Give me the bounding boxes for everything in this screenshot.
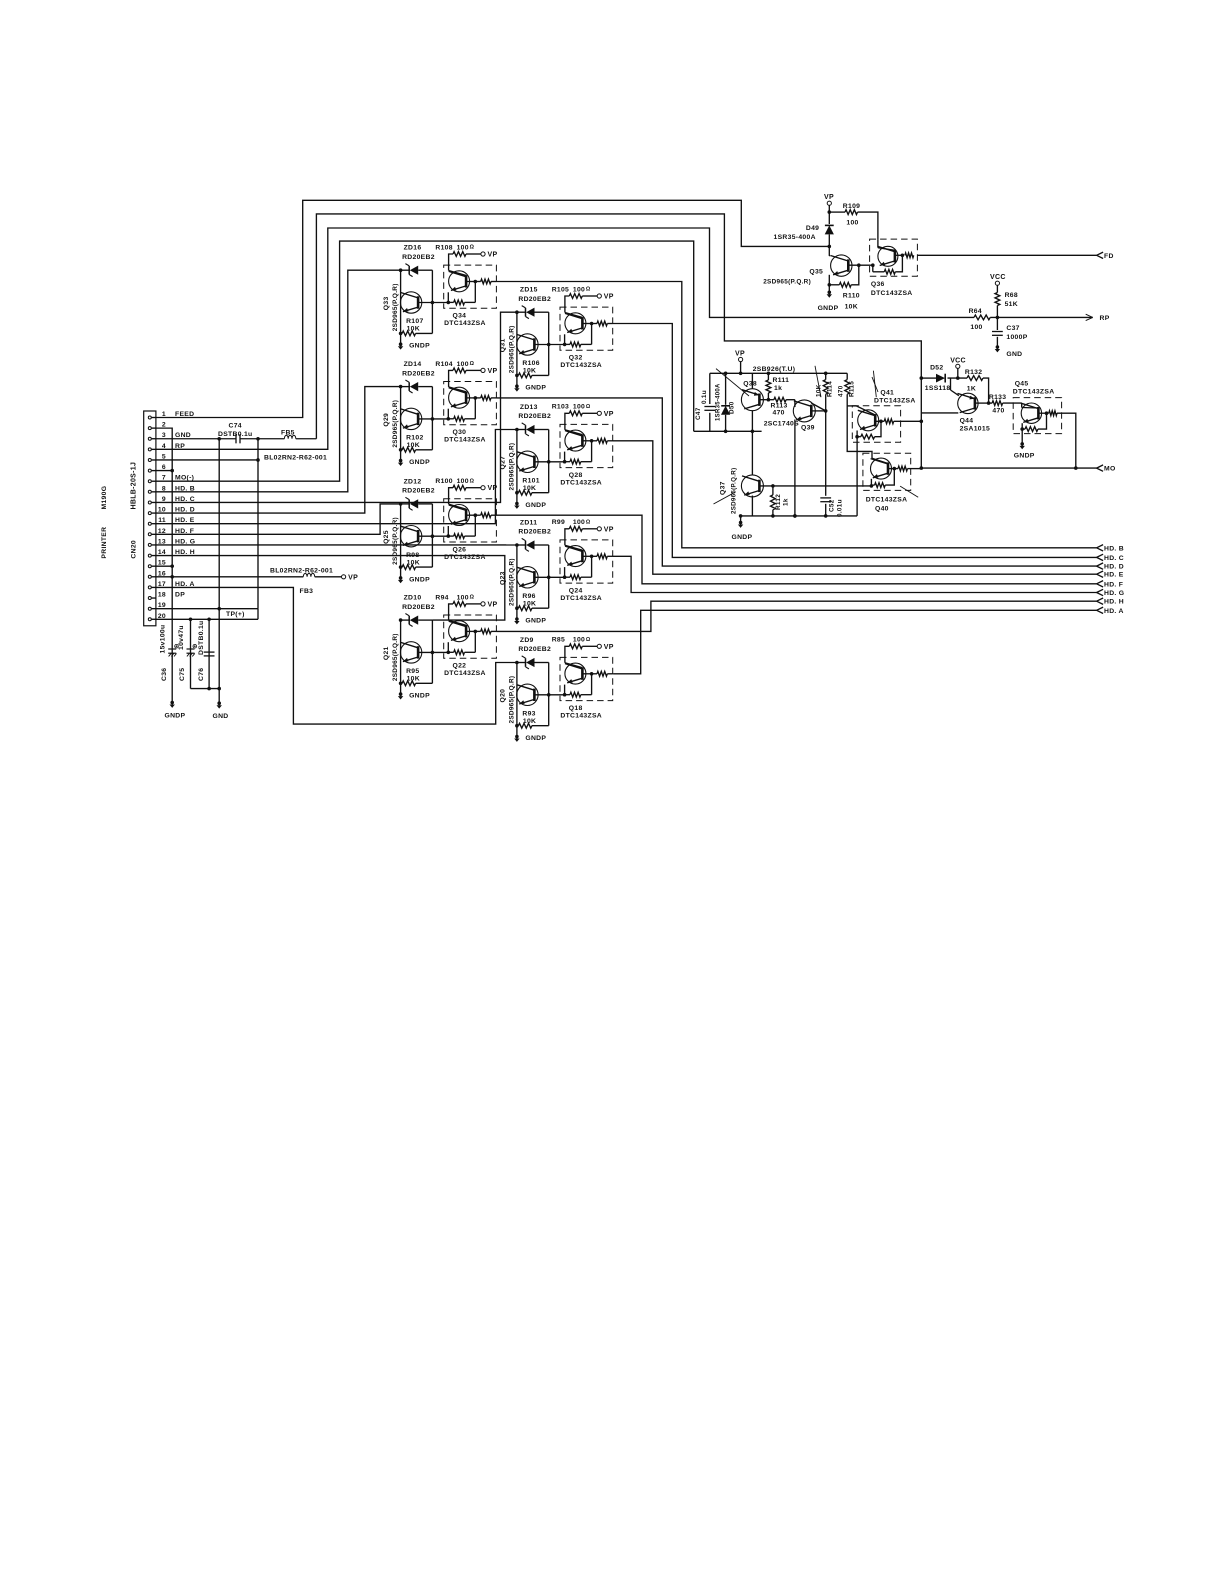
digital transistor Q30 — [444, 382, 497, 425]
svg-text:Ω: Ω — [470, 245, 475, 251]
svg-text:GNDP: GNDP — [525, 502, 546, 509]
svg-text:DTC143ZSA: DTC143ZSA — [560, 480, 602, 487]
svg-text:1000P: 1000P — [1006, 334, 1027, 341]
wire base link Q25 — [418, 535, 448, 537]
svg-text:100: 100 — [573, 286, 585, 293]
resistor R99 — [565, 529, 569, 540]
wire row16 FB3 — [156, 576, 303, 578]
transistor Q23 — [517, 567, 538, 588]
leader Q41 — [872, 377, 878, 392]
svg-text:DTC143ZSA: DTC143ZSA — [560, 595, 602, 602]
svg-text:R113: R113 — [771, 403, 788, 410]
wire Q37 collector rail — [694, 430, 762, 432]
transistor Q31 — [517, 334, 538, 355]
resistor R108 — [449, 254, 453, 265]
svg-text:Ω: Ω — [586, 287, 591, 293]
svg-text:15v100u: 15v100u — [160, 625, 167, 654]
resistor R132 — [967, 376, 983, 381]
svg-text:DSTB0.1u: DSTB0.1u — [218, 431, 253, 438]
transistor Q20 — [517, 684, 538, 705]
ground GNDP (Q45) — [1020, 442, 1024, 446]
svg-text:100: 100 — [457, 361, 469, 368]
wire pin15 stub — [156, 565, 172, 567]
svg-text:DTC143ZSA: DTC143ZSA — [444, 320, 486, 327]
port FD — [1097, 252, 1104, 255]
ground GNDP Q21 — [399, 692, 403, 696]
connector signal labels — [175, 411, 245, 618]
wire collector drop Q33 — [400, 270, 402, 344]
svg-text:R109: R109 — [843, 203, 860, 210]
svg-text:10K: 10K — [523, 368, 536, 375]
digital transistor Q32 — [560, 307, 613, 350]
svg-text:R101: R101 — [522, 478, 539, 485]
ferrite bead FB5 — [284, 435, 295, 439]
capacitor C76 — [204, 651, 215, 653]
svg-text:VP: VP — [488, 368, 498, 375]
svg-text:GNDP: GNDP — [165, 713, 186, 720]
wire base column Q29 — [431, 387, 433, 450]
zener ZD11 — [517, 544, 526, 546]
resistor R94 — [449, 604, 453, 615]
node VP (R100) — [481, 486, 485, 490]
connector CN20 pins 1-20 — [148, 416, 151, 621]
diode D52 — [921, 377, 936, 379]
wire HD.B feed — [156, 270, 401, 492]
svg-text:C36: C36 — [161, 668, 168, 681]
svg-text:DTC143ZSA: DTC143ZSA — [1013, 388, 1055, 395]
svg-text:Q44: Q44 — [960, 418, 974, 425]
leader R115 — [873, 371, 876, 398]
resistor R85 — [565, 646, 569, 657]
svg-text:Q24: Q24 — [569, 588, 583, 595]
wire HD.E feed — [156, 430, 517, 524]
digital transistor Q34 — [444, 265, 497, 308]
svg-text:R114: R114 — [827, 381, 834, 397]
wire GNDP rail (pin2 column) — [156, 428, 172, 702]
svg-text:1k: 1k — [774, 385, 782, 392]
node VP (R104) — [481, 368, 485, 372]
wire GND/FB5 bus net — [316, 214, 921, 468]
resistor R112 — [772, 486, 774, 495]
leader R114 — [815, 366, 821, 397]
svg-text:R112: R112 — [775, 494, 782, 510]
svg-text:470: 470 — [773, 410, 785, 417]
wire RP net right — [990, 316, 1092, 318]
svg-text:R100: R100 — [435, 478, 452, 485]
svg-text:10K: 10K — [407, 559, 420, 566]
svg-text:2SD965(P.Q.R): 2SD965(P.Q.R) — [508, 325, 515, 373]
wire Q41 collector tap — [847, 405, 856, 407]
wire HD.H output net — [496, 601, 1096, 631]
node VP (R108) — [481, 252, 485, 256]
resistor R102 — [401, 449, 403, 451]
svg-text:51K: 51K — [1005, 301, 1018, 308]
svg-text:10K: 10K — [523, 601, 536, 608]
wire HD.C output net — [613, 324, 1097, 558]
svg-text:VP: VP — [604, 644, 614, 651]
wire HD.H feed — [156, 556, 505, 621]
svg-text:RP: RP — [1100, 315, 1110, 322]
svg-text:10K: 10K — [407, 326, 420, 333]
svg-text:GNDP: GNDP — [409, 576, 430, 583]
svg-text:1K: 1K — [967, 385, 976, 392]
svg-text:R104: R104 — [435, 361, 452, 368]
node VP (FB3) — [342, 575, 346, 579]
wire Q44 collector link — [921, 412, 958, 414]
svg-text:2SD965(P.Q.R): 2SD965(P.Q.R) — [508, 676, 515, 724]
svg-text:R102: R102 — [406, 435, 423, 442]
wire base link Q27 — [534, 461, 564, 463]
svg-text:GND: GND — [1006, 351, 1022, 358]
ground GNDP Q31 — [515, 384, 519, 388]
svg-text:100: 100 — [573, 637, 585, 644]
wire base column Q33 — [431, 270, 433, 333]
svg-text:Q25: Q25 — [383, 530, 390, 544]
ferrite bead FB3 — [303, 573, 314, 577]
svg-text:DTC143ZSA: DTC143ZSA — [874, 398, 916, 405]
wire HD.C feed — [156, 312, 517, 502]
svg-text:0.1u: 0.1u — [701, 390, 708, 404]
leader 2SB926 — [716, 369, 749, 396]
svg-text:2SB926(T.U): 2SB926(T.U) — [753, 366, 796, 373]
svg-text:100: 100 — [970, 324, 982, 331]
svg-text:Q33: Q33 — [383, 296, 390, 310]
ground GNDP Q23 — [515, 617, 519, 621]
svg-text:10K: 10K — [845, 303, 858, 310]
svg-text:HD. D: HD. D — [1104, 564, 1124, 571]
digital transistor Q26 — [444, 499, 497, 542]
svg-text:100: 100 — [573, 404, 585, 411]
wire row20 — [156, 618, 258, 620]
zener ZD10 — [401, 619, 410, 621]
svg-text:2SD965(P.Q.R): 2SD965(P.Q.R) — [392, 633, 399, 681]
wire HD.A output net — [613, 610, 1097, 674]
svg-text:2SD965(P.Q.R): 2SD965(P.Q.R) — [392, 283, 399, 331]
wire HD.F output net — [496, 515, 1096, 584]
wire TP(+) column — [218, 439, 220, 703]
port HD.E — [1097, 571, 1104, 574]
svg-text:ZD14: ZD14 — [404, 361, 422, 368]
transistor Q44 — [958, 393, 978, 413]
svg-text:2SD965(P.Q.R): 2SD965(P.Q.R) — [763, 278, 811, 285]
svg-text:HD. C: HD. C — [1104, 555, 1124, 562]
capacitor C37 — [996, 317, 998, 330]
wire HD.D output net — [496, 398, 1096, 566]
wire collector drop Q29 — [400, 387, 402, 461]
ground GNDP Q25 — [399, 576, 403, 580]
resistor R95 — [401, 682, 403, 684]
capacitor C47 — [704, 406, 715, 408]
transistor Q35 — [828, 246, 830, 256]
svg-text:Q32: Q32 — [569, 355, 583, 362]
zener ZD16 — [401, 269, 410, 271]
svg-text:R68: R68 — [1005, 292, 1018, 299]
wire RP net — [156, 228, 974, 449]
svg-text:HD. A: HD. A — [1104, 608, 1124, 615]
svg-text:Q22: Q22 — [453, 663, 467, 670]
svg-text:HD. E: HD. E — [1104, 572, 1124, 579]
svg-text:2SC1740S: 2SC1740S — [764, 421, 799, 428]
wire HD.B output net — [496, 282, 1096, 548]
diode D49 — [825, 225, 834, 234]
port HD.D — [1097, 563, 1104, 566]
node VP (MO) — [739, 357, 743, 361]
resistor R100 — [449, 488, 453, 499]
wire Q35 base — [848, 264, 873, 266]
wire HD.G output net — [613, 556, 1097, 592]
resistor R115 — [845, 380, 850, 395]
wire base link Q31 — [534, 344, 564, 346]
wire Q35 emitter — [828, 275, 830, 293]
svg-text:C52: C52 — [829, 499, 836, 512]
transistor Q25 — [400, 526, 421, 547]
port HD.H — [1097, 598, 1104, 601]
svg-text:R110: R110 — [843, 293, 860, 300]
ground GND (C37) — [996, 345, 1000, 349]
svg-text:GNDP: GNDP — [818, 305, 839, 312]
node VP (R103) — [597, 411, 601, 415]
svg-text:Ω: Ω — [470, 595, 475, 601]
svg-text:R107: R107 — [406, 318, 423, 325]
svg-text:VP: VP — [604, 411, 614, 418]
resistor R98 — [401, 566, 403, 568]
digital transistor Q40 — [863, 453, 911, 490]
svg-text:100: 100 — [457, 478, 469, 485]
resistor R68 — [996, 285, 998, 292]
resistor R113 — [768, 399, 774, 401]
svg-text:0.01u: 0.01u — [837, 499, 844, 517]
svg-text:R111: R111 — [773, 377, 790, 384]
node VP (R85) — [597, 644, 601, 648]
svg-text:HBLB-20S-1J: HBLB-20S-1J — [131, 462, 138, 510]
svg-text:1SS118: 1SS118 — [925, 385, 951, 392]
ground GNDP (Q35) — [828, 291, 832, 295]
wire HD.E output net — [613, 441, 1097, 574]
svg-text:GNDP: GNDP — [409, 343, 430, 350]
wire Q39 emitter — [794, 420, 796, 516]
resistor R106 — [517, 374, 519, 376]
wire collector drop Q31 — [516, 312, 518, 386]
wire Q37 emitter — [751, 496, 753, 516]
wire Q38 base — [760, 399, 769, 401]
svg-text:RD20EB2: RD20EB2 — [402, 604, 435, 611]
svg-text:VP: VP — [488, 252, 498, 259]
wire C74 junction drop — [257, 439, 259, 609]
wire HD.F feed — [156, 504, 401, 534]
svg-text:DTC143ZSA: DTC143ZSA — [560, 713, 602, 720]
svg-text:Q29: Q29 — [383, 413, 390, 427]
connector pin stubs — [152, 418, 156, 620]
svg-text:Q39: Q39 — [801, 425, 815, 432]
svg-text:100: 100 — [846, 219, 858, 226]
svg-text:HD. B: HD. B — [1104, 545, 1124, 552]
wire HD.D feed — [156, 387, 401, 513]
svg-text:GNDP: GNDP — [525, 735, 546, 742]
svg-text:GNDP: GNDP — [409, 693, 430, 700]
digital transistor Q28 — [560, 424, 613, 467]
wire base column Q27 — [548, 430, 550, 493]
ground GNDP Q33 — [399, 342, 403, 346]
svg-text:HD. H: HD. H — [1104, 599, 1124, 606]
resistor R103 — [565, 413, 569, 424]
svg-text:TP(+): TP(+) — [226, 611, 245, 618]
wire C47 branch — [709, 373, 711, 404]
svg-text:C74: C74 — [229, 423, 242, 430]
svg-text:470: 470 — [992, 408, 1004, 415]
svg-text:Q41: Q41 — [880, 390, 894, 397]
svg-text:VCC: VCC — [990, 274, 1006, 281]
leader Q40 — [900, 486, 918, 497]
wire row3 GND/C74/FB5 — [156, 438, 236, 440]
capacitor C36 — [168, 648, 176, 650]
transistor Q33 — [400, 292, 421, 313]
svg-text:HD. F: HD. F — [1104, 581, 1123, 588]
svg-text:Q18: Q18 — [569, 705, 583, 712]
svg-text:C75: C75 — [179, 668, 186, 681]
ground GNDP Q20 — [515, 735, 519, 739]
svg-text:R96: R96 — [522, 593, 535, 600]
svg-text:FD: FD — [1104, 253, 1114, 260]
svg-text:RD20EB2: RD20EB2 — [518, 296, 551, 303]
wire Q41 input to rail — [856, 437, 858, 516]
svg-text:Ω: Ω — [586, 519, 591, 525]
svg-text:VP: VP — [488, 601, 498, 608]
svg-text:C76: C76 — [198, 668, 205, 681]
svg-text:Q21: Q21 — [383, 646, 390, 660]
svg-text:RD20EB2: RD20EB2 — [402, 254, 435, 261]
resistor R109 — [829, 211, 845, 213]
svg-text:ZD9: ZD9 — [520, 637, 534, 644]
wire base link Q20 — [534, 694, 564, 696]
zener ZD12 — [401, 503, 410, 505]
svg-text:18: 18 — [158, 592, 166, 599]
svg-text:Q28: Q28 — [569, 472, 583, 479]
svg-text:ZD10: ZD10 — [404, 595, 422, 602]
svg-text:RD20EB2: RD20EB2 — [518, 529, 551, 536]
resistor R111 — [767, 373, 769, 380]
resistor R105 — [565, 296, 569, 307]
svg-text:10K: 10K — [407, 442, 420, 449]
port HD.B — [1097, 545, 1104, 548]
svg-text:DSTB0.1u: DSTB0.1u — [198, 620, 205, 655]
capacitor C75 — [187, 648, 195, 650]
svg-text:R95: R95 — [406, 668, 419, 675]
leader Q37 — [714, 492, 736, 504]
wire base link Q33 — [418, 302, 448, 304]
zener ZD9 — [517, 662, 526, 664]
wire base column Q20 — [548, 663, 550, 726]
svg-text:Ω: Ω — [470, 478, 475, 484]
svg-text:C47: C47 — [695, 407, 702, 420]
wire base link Q23 — [534, 576, 564, 578]
svg-text:VP: VP — [348, 574, 358, 581]
resistor R96 — [517, 607, 519, 609]
transistor Q29 — [400, 408, 421, 429]
svg-text:MO: MO — [1104, 466, 1116, 473]
ground GNDP (Q37) — [740, 516, 742, 523]
svg-text:GNDP: GNDP — [1014, 453, 1035, 460]
resistor R133 — [992, 401, 1003, 406]
svg-text:2SD965(P.Q.R): 2SD965(P.Q.R) — [508, 558, 515, 606]
connector CN20 body — [144, 411, 156, 626]
svg-text:R132: R132 — [965, 369, 982, 376]
digital transistor Q18 — [560, 657, 613, 700]
digital transistor Q24 — [560, 540, 613, 583]
wire collector drop Q20 — [516, 663, 518, 737]
svg-text:R105: R105 — [552, 286, 569, 293]
node VCC (D52) — [956, 364, 960, 368]
node VCC (R68) — [995, 281, 999, 285]
svg-text:DTC143ZSA: DTC143ZSA — [560, 362, 602, 369]
svg-text:M190G: M190G — [101, 486, 108, 510]
svg-text:R108: R108 — [435, 244, 452, 251]
svg-text:HD. G: HD. G — [1104, 590, 1124, 597]
wire Q39 collector — [811, 403, 825, 411]
wire base column Q21 — [431, 620, 433, 683]
svg-text:C37: C37 — [1006, 325, 1019, 332]
svg-text:R64: R64 — [969, 308, 982, 315]
wire collector drop Q21 — [400, 620, 402, 694]
svg-text:GND: GND — [213, 713, 229, 720]
node VP (FD) — [827, 201, 831, 205]
transistor Q39 — [794, 400, 796, 407]
svg-text:1SR35-400A: 1SR35-400A — [716, 383, 722, 421]
resistor R93 — [517, 725, 519, 727]
svg-text:RD20EB2: RD20EB2 — [518, 413, 551, 420]
wire Q37 base net — [760, 485, 872, 487]
wire GND rail (MO) — [741, 515, 858, 517]
wire HD.G feed — [156, 544, 517, 546]
svg-text:PRINTER: PRINTER — [101, 527, 108, 559]
svg-text:1SR35-400A: 1SR35-400A — [774, 234, 816, 241]
transistor Q37 — [741, 475, 763, 497]
svg-text:Q37: Q37 — [720, 481, 727, 495]
svg-text:Q45: Q45 — [1015, 380, 1029, 387]
svg-text:R103: R103 — [552, 404, 569, 411]
wire base column Q23 — [548, 545, 550, 608]
svg-text:GNDP: GNDP — [409, 459, 430, 466]
port HD.C — [1097, 554, 1104, 557]
svg-text:100: 100 — [573, 519, 585, 526]
port HD.A — [1097, 607, 1104, 610]
wire MO net — [921, 467, 1096, 469]
capacitor C75 branch — [190, 619, 192, 688]
svg-text:CN20: CN20 — [131, 540, 138, 559]
svg-text:Q35: Q35 — [809, 268, 823, 275]
resistor R110 — [829, 284, 839, 286]
port MO — [1097, 465, 1104, 468]
svg-text:2SD965(P.Q.R): 2SD965(P.Q.R) — [731, 468, 738, 514]
svg-text:DTC143ZSA: DTC143ZSA — [871, 290, 913, 297]
svg-text:DTC143ZSA: DTC143ZSA — [444, 670, 486, 677]
capacitor C74 — [235, 434, 237, 443]
wire collector drop Q23 — [516, 545, 518, 619]
resistor R107 — [401, 332, 403, 334]
ground GNDP (C36) — [170, 701, 174, 705]
digital transistor Q36 — [870, 239, 918, 276]
svg-text:2SD965(P.Q.R): 2SD965(P.Q.R) — [508, 443, 515, 491]
resistor R104 — [449, 370, 453, 381]
svg-text:RD20EB2: RD20EB2 — [402, 370, 435, 377]
wire collector drop Q27 — [516, 430, 518, 504]
zener ZD15 — [517, 311, 526, 313]
ground GND (TP column) — [217, 701, 221, 705]
port RP — [1086, 314, 1093, 320]
svg-text:Q38: Q38 — [743, 381, 757, 388]
svg-text:ZD12: ZD12 — [404, 478, 422, 485]
wire pin6 stub — [156, 470, 172, 472]
svg-text:2SA1015: 2SA1015 — [960, 426, 990, 433]
